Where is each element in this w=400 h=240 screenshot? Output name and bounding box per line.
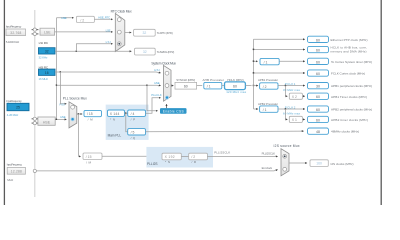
title System Clock Mux [151, 62, 176, 66]
node PLLCLK label [151, 93, 162, 97]
label *N (PLLI2S) [165, 160, 170, 164]
output FCLK box [308, 70, 329, 76]
oscillator HSE [38, 117, 55, 125]
output APB1 peripheral box [308, 83, 329, 89]
svg-text:APB2 Prescaler: APB2 Prescaler [258, 102, 278, 106]
multiplier PLLI2S xN [162, 153, 181, 160]
output APB2 peripheral box [308, 106, 329, 112]
node HSE label (RTC) [61, 16, 66, 20]
divider AHB /1 [204, 82, 222, 89]
svg-text:PCLK1: PCLK1 [285, 82, 296, 86]
wire Q output to 48MHz box [146, 130, 304, 133]
svg-text:APB1 peripheral clocks (MHz): APB1 peripheral clocks (MHz) [331, 84, 372, 88]
svg-text:32: 32 [143, 31, 147, 35]
label FCLK Cortex clock (MHz) [331, 72, 365, 76]
wire I2S M to panel [102, 155, 160, 157]
wire I2S mux output [289, 162, 307, 164]
svg-text:/ Q: / Q [131, 136, 136, 140]
node LSE label [106, 28, 111, 32]
label 4-26 MHz [7, 113, 19, 117]
label Input Frequency (HSE) [6, 99, 22, 103]
output I2S clocks box [310, 160, 328, 167]
frame right border [380, 0, 382, 205]
svg-text:16: 16 [45, 71, 49, 75]
panel PLLI2S [146, 147, 213, 168]
svg-text:/ 15: / 15 [87, 112, 93, 116]
svg-text:X 144: X 144 [110, 112, 120, 116]
svg-text:PLL Source Mux: PLL Source Mux [63, 97, 87, 101]
svg-text:120 MHz max: 120 MHz max [226, 90, 247, 94]
output 48MHz box [308, 128, 329, 134]
input frequency box LSE 32.768 [6, 29, 26, 36]
divider APB1 /2 [260, 83, 278, 89]
label I2S clocks (MHz) [331, 162, 354, 166]
title RTC Clock Mux [111, 10, 132, 14]
wire into APB1 prescaler [254, 85, 259, 87]
wire X1 out [302, 118, 304, 120]
wire LSE to RTC mux [55, 31, 113, 33]
svg-text:To RTC (KHz): To RTC (KHz) [157, 31, 173, 35]
output APB2 timer box [308, 116, 329, 122]
label /M [88, 118, 94, 122]
label 16 MHz [39, 77, 49, 81]
svg-text:/ 1: / 1 [263, 108, 267, 112]
label 60 MHz max [283, 112, 301, 116]
mux system clock [164, 65, 172, 101]
node HSE label (sys mux) [154, 81, 160, 85]
svg-text:PLLI2SCLK: PLLI2SCLK [214, 151, 230, 155]
svg-text:System Clock Mux: System Clock Mux [151, 62, 176, 66]
svg-text:60: 60 [316, 60, 320, 64]
label PLLI2S [147, 162, 158, 166]
svg-text:Enable CSS: Enable CSS [163, 109, 185, 113]
svg-text:32: 32 [143, 50, 147, 54]
svg-text:60: 60 [233, 84, 237, 88]
output To IWDG box [135, 48, 156, 55]
svg-text:HSE: HSE [154, 81, 160, 85]
wire into APB2 prescaler [254, 108, 259, 110]
label APB1 peripheral clocks (MHz) [331, 84, 372, 88]
wire HSE_RTC to RTC mux [94, 18, 112, 20]
label /R [192, 160, 197, 164]
svg-text:/ 2: / 2 [80, 18, 84, 22]
svg-text:12.288: 12.288 [11, 169, 22, 173]
svg-text:16 MHz: 16 MHz [39, 77, 49, 81]
label *N [110, 118, 115, 122]
wire AHB to HCLK [222, 85, 225, 87]
wire CSS arrow to mux [166, 104, 168, 108]
node PCLK1 label [285, 82, 296, 86]
wire LSI to IWDG [55, 51, 131, 52]
label APB1 Prescaler [258, 78, 278, 82]
divider PLLI2S /M [83, 153, 102, 160]
label 120 MHz max [226, 90, 247, 94]
svg-text:48: 48 [316, 130, 320, 134]
wire APB2 timer branch [286, 109, 288, 119]
output Ethernet PTP box [308, 36, 329, 42]
chip boundary line [34, 10, 36, 197]
label HCLK to AHB bus two lines [331, 46, 368, 54]
svg-text:60: 60 [316, 108, 320, 112]
output SYSCLK box [175, 82, 197, 89]
label Ethernet PTP clock (MHz) [331, 38, 368, 42]
input frequency box I2S 12.288 [7, 167, 25, 174]
svg-text:32.768: 32.768 [10, 31, 21, 35]
label /Q [131, 136, 136, 140]
divider Cortex /1 [260, 58, 279, 64]
wire APB1 timer branch [286, 86, 288, 97]
wire APB2 prescaler out [278, 108, 305, 110]
svg-text:SYSCLK (MHz): SYSCLK (MHz) [176, 78, 195, 82]
svg-text:/ 15: / 15 [86, 155, 92, 159]
label 48MHz clocks (MHz) [331, 130, 359, 134]
wire PLL source drop to PLLI2S divider [79, 114, 81, 156]
divider PLL /P [128, 110, 146, 116]
wire HCLK to bus [245, 85, 254, 87]
label To Cortex System timer (MHz) [331, 60, 372, 64]
svg-text:Input Frequency: Input Frequency [6, 99, 22, 103]
svg-text:5-1000 KHz: 5-1000 KHz [6, 40, 20, 44]
node Ext clock label [262, 166, 273, 170]
divider APB2 /1 [260, 106, 278, 112]
svg-text:/ 2: / 2 [191, 155, 195, 159]
svg-text:48MHz clocks (MHz): 48MHz clocks (MHz) [331, 130, 359, 134]
node PCLK2 label [285, 105, 296, 109]
label 5-1000 KHz [6, 40, 20, 44]
node PLLI2SCLK label (panel) [214, 151, 230, 155]
svg-text:Input Frequency: Input Frequency [6, 24, 22, 28]
label Main PLL [108, 134, 122, 138]
svg-text:/ M: / M [86, 160, 92, 164]
svg-text:HSE_RTC: HSE_RTC [98, 16, 110, 20]
svg-text:X 192: X 192 [165, 155, 175, 159]
oscillator HSI RC [39, 69, 56, 75]
oscillator LSE [40, 28, 55, 35]
svg-text:PLLCLK: PLLCLK [151, 93, 162, 97]
svg-text:60: 60 [316, 72, 320, 76]
svg-text:Input Frequency: Input Frequency [7, 163, 23, 167]
wire PLLI2SCLK to I2S mux [207, 155, 277, 157]
wire HSI drop to PLL mux [60, 72, 66, 104]
input frequency box HSE 25 [7, 103, 29, 110]
wire N to R [181, 156, 188, 158]
svg-text:* N: * N [110, 118, 115, 122]
svg-text:To Cortex System timer (MHz): To Cortex System timer (MHz) [331, 60, 372, 64]
svg-text:/ 1: / 1 [264, 60, 268, 64]
svg-text:/ 4: / 4 [131, 112, 135, 116]
svg-text:25: 25 [16, 106, 20, 110]
svg-text:32: 32 [45, 50, 49, 54]
wire N to P [125, 112, 128, 113]
mux RTC [115, 13, 125, 51]
label /M (PLLI2S) [86, 160, 92, 164]
svg-text:LSI: LSI [106, 40, 111, 44]
multiplier APB1 X2 [289, 93, 302, 99]
wire row Ethernet [254, 38, 305, 40]
svg-text:APB2 timer clocks (MHz): APB2 timer clocks (MHz) [331, 118, 368, 122]
svg-text:/ M: / M [88, 118, 94, 122]
wire SYSCLK to AHB prescaler [197, 85, 203, 87]
divider main PLL /M [84, 110, 102, 116]
svg-text:I2S clocks (MHz): I2S clocks (MHz) [331, 162, 354, 166]
label AHB Prescaler [203, 78, 225, 82]
label HCLK (MHz) [227, 78, 244, 82]
divider PLL /Q [128, 129, 146, 135]
output HCLK AHB box [308, 46, 329, 52]
wire row HCLK AHB [253, 49, 305, 51]
wire P output to system mux PLLCLK [146, 98, 161, 113]
node HSE label (PLL mux) [60, 115, 66, 119]
node HSI label (sys mux) [154, 68, 160, 72]
mux PLL source [69, 102, 77, 128]
frame left border [3, 0, 5, 205]
svg-text:HSE: HSE [60, 115, 66, 119]
node PLLI2SCLK label (mux) [262, 151, 276, 155]
svg-text:60: 60 [316, 38, 320, 42]
wire RTC mux output [125, 32, 131, 34]
output HCLK box [225, 82, 246, 90]
wire HSE vertical riser [56, 18, 58, 120]
label 30 MHz max [283, 88, 301, 92]
label SYSCLK (MHz) [176, 78, 195, 82]
svg-text:HSI: HSI [154, 68, 160, 72]
node HSI label (PLL mux) [60, 102, 66, 106]
svg-text:X 1: X 1 [292, 118, 297, 122]
title I2S source Mux [274, 144, 300, 148]
wire LSI riser to RTC mux [76, 44, 112, 52]
label MHz [7, 178, 14, 182]
wire HSE to system clock mux [56, 84, 161, 86]
divider RTC HSE /2 [76, 16, 94, 22]
svg-text:* N: * N [165, 160, 170, 164]
wire Cortex prescaler out [279, 60, 305, 62]
output Cortex timer box [308, 58, 329, 64]
svg-text:60: 60 [316, 95, 320, 99]
wire CSS feed [147, 86, 158, 111]
wire row FCLK [253, 72, 305, 74]
svg-text:PLLI2SCLK: PLLI2SCLK [262, 151, 276, 155]
svg-text:X 2: X 2 [292, 95, 297, 99]
wire Ext clock to I2S mux [36, 170, 277, 171]
LSE pin circles [32, 28, 39, 36]
label 32 KHz [39, 56, 49, 60]
output To RTC box [134, 29, 156, 36]
svg-text:/ P: / P [131, 118, 136, 122]
svg-text:AHB Prescaler: AHB Prescaler [203, 78, 225, 82]
multiplier PLL xN [108, 110, 125, 116]
svg-text:FCLK Cortex clock (MHz): FCLK Cortex clock (MHz) [331, 72, 365, 76]
panel Main PLL [106, 105, 149, 140]
svg-text:To IWDG (KHz): To IWDG (KHz) [157, 50, 175, 54]
svg-text:32 KHz: 32 KHz [39, 56, 49, 60]
wire HSE to RTC divider [57, 17, 74, 19]
svg-text:memory and DMA (MHz): memory and DMA (MHz) [331, 49, 367, 53]
label LSI RC [39, 41, 49, 45]
svg-text:60: 60 [316, 118, 320, 122]
svg-text:APB1 Timer clocks (MHz): APB1 Timer clocks (MHz) [331, 95, 367, 99]
svg-text:APB2 peripheral clocks (MHz): APB2 peripheral clocks (MHz) [331, 108, 372, 112]
label Input Frequency (I2S) [7, 163, 23, 167]
HSE pin circles [32, 117, 38, 124]
svg-text:MHz: MHz [7, 178, 14, 182]
wire HSI to system clock mux [55, 71, 161, 73]
svg-text:Ext clock: Ext clock [262, 166, 273, 170]
svg-text:PLLI2S: PLLI2S [147, 162, 158, 166]
wire HCLK distribution bus [253, 39, 255, 109]
label To RTC (KHz) [157, 31, 173, 35]
svg-text:60: 60 [316, 49, 320, 53]
label Input Frequency (LSE) [6, 24, 22, 28]
svg-text:I2S source Mux: I2S source Mux [274, 144, 300, 148]
svg-text:RTC Clock Mux: RTC Clock Mux [111, 10, 132, 14]
wire APB1 prescaler out [278, 85, 305, 87]
svg-text:LSE: LSE [44, 30, 51, 34]
oscillator LSI RC [39, 48, 56, 54]
wire row Cortex prescaler [253, 60, 258, 62]
label HSI RC [39, 65, 49, 69]
label APB2 peripheral clocks (MHz) [331, 108, 372, 112]
divider PLLI2S /R [189, 153, 208, 160]
svg-text:160: 160 [316, 162, 322, 166]
svg-text:APB1 Prescaler: APB1 Prescaler [258, 78, 278, 82]
svg-text:/ 1: / 1 [207, 84, 211, 88]
wire PLL mux output [77, 113, 82, 114]
multiplier APB2 X1 [289, 116, 302, 122]
svg-text:HSE: HSE [43, 120, 51, 124]
svg-text:/ 2: / 2 [263, 85, 267, 89]
svg-text:Ethernet PTP clock (MHz): Ethernet PTP clock (MHz) [331, 38, 368, 42]
label APB2 Prescaler [258, 102, 278, 106]
wire X2 out [302, 95, 304, 97]
svg-text:4-26 MHz: 4-26 MHz [7, 113, 19, 117]
svg-text:60: 60 [184, 84, 188, 88]
svg-text:30: 30 [316, 85, 320, 89]
svg-text:/ 5: / 5 [131, 131, 135, 135]
label To IWDG (KHz) [157, 50, 175, 54]
svg-text:HSI: HSI [60, 102, 66, 106]
button Enable CSS [160, 108, 187, 114]
title PLL Source Mux [63, 97, 87, 101]
svg-text:Main PLL: Main PLL [108, 134, 122, 138]
wire system mux output [171, 85, 173, 87]
svg-text:PCLK2: PCLK2 [285, 105, 296, 109]
label APB1 Timer clocks (MHz) [331, 95, 367, 99]
label APB2 timer clocks (MHz) [331, 118, 368, 122]
label /P [131, 118, 136, 122]
I2S CKIN pin circle [33, 169, 36, 172]
svg-text:LSE: LSE [106, 28, 111, 32]
node HSE_RTC label [98, 16, 110, 20]
svg-text:LSI RC: LSI RC [39, 41, 49, 45]
mux I2S source [281, 149, 289, 176]
svg-text:HSE: HSE [61, 16, 66, 20]
wire HSE output to PLL mux [55, 119, 66, 120]
wire P drop to Q [126, 113, 128, 132]
output APB1 timer box [308, 93, 329, 99]
node LSI label [106, 40, 111, 44]
